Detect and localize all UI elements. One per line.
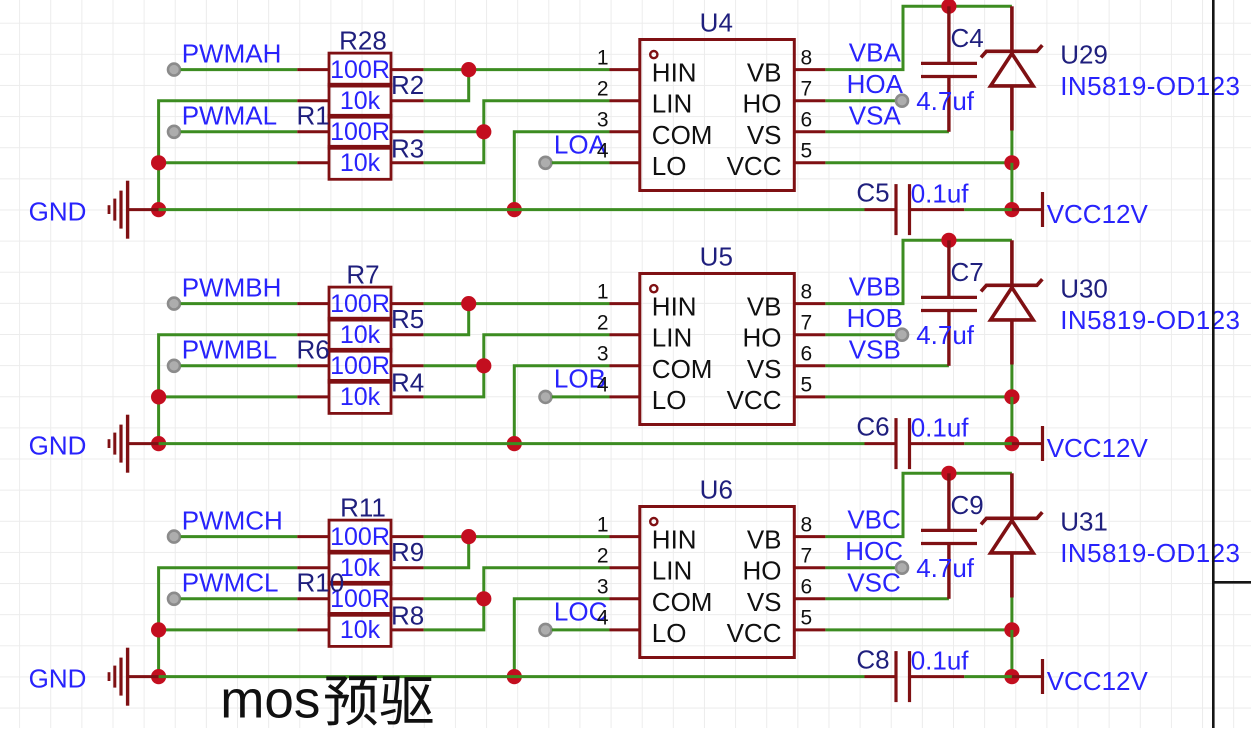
svg-text:5: 5 <box>801 140 813 163</box>
junction VCC net / VCC12V rail <box>1004 669 1019 684</box>
svg-text:LO: LO <box>652 151 687 181</box>
net port LOC <box>540 624 552 636</box>
wire PWMBL to R6 <box>181 364 298 367</box>
svg-text:R2: R2 <box>391 70 424 100</box>
svg-text:VCC: VCC <box>727 618 782 648</box>
diode U29 IN5819-OD123 (Schottky) <box>981 6 1042 130</box>
svg-text:VBA: VBA <box>849 38 902 68</box>
wire VS to C7 <box>825 364 949 367</box>
svg-text:VBC: VBC <box>847 505 900 535</box>
net port HOA <box>896 95 908 107</box>
svg-text:PWMBH: PWMBH <box>182 272 282 302</box>
svg-text:U5: U5 <box>700 242 733 272</box>
resistor R4 10k <box>297 368 424 414</box>
wire U29 anode to VCC net <box>1010 131 1013 163</box>
IC U6 gate driver <box>597 475 826 658</box>
wire R1 to LIN net <box>424 130 484 133</box>
IC U5 gate driver <box>597 242 826 425</box>
junction bootstrap rail / C4 <box>941 0 956 14</box>
ground symbol <box>109 415 159 473</box>
svg-text:R8: R8 <box>391 601 424 631</box>
wire R5 to GND rail <box>159 335 298 444</box>
svg-text:2: 2 <box>597 312 609 335</box>
svg-text:VBB: VBB <box>849 272 901 302</box>
svg-text:HOB: HOB <box>847 303 903 333</box>
svg-text:7: 7 <box>801 545 813 568</box>
svg-text:R3: R3 <box>391 134 424 164</box>
resistor R11 100R <box>297 492 423 553</box>
svg-text:HIN: HIN <box>652 58 697 88</box>
svg-text:R11: R11 <box>340 492 386 522</box>
svg-text:VB: VB <box>747 58 782 88</box>
svg-text:VCC12V: VCC12V <box>1047 666 1149 696</box>
svg-text:GND: GND <box>29 197 87 227</box>
wire HO to HOC <box>825 566 902 569</box>
wire R2 to HIN net <box>424 70 469 101</box>
resistor R1 100R <box>297 101 424 149</box>
wire LOA to pin4 <box>552 161 610 164</box>
resistor R9 10k <box>297 537 424 584</box>
net port HOC <box>896 562 908 574</box>
wire VS to C9 <box>825 597 949 600</box>
svg-text:1: 1 <box>597 513 609 536</box>
svg-text:10k: 10k <box>340 149 381 177</box>
svg-text:100R: 100R <box>330 523 390 551</box>
junction LIN net <box>476 591 491 606</box>
wire R8 to GND rail <box>159 628 298 631</box>
svg-text:VB: VB <box>747 525 782 555</box>
wire to VCC12V flag <box>964 442 1012 445</box>
svg-text:mos: mos <box>220 671 320 729</box>
wire HIN net R7 to pin1 <box>424 302 610 305</box>
svg-text:R28: R28 <box>339 25 387 55</box>
svg-text:C9: C9 <box>951 490 984 520</box>
svg-text:6: 6 <box>801 343 813 366</box>
svg-text:VCC: VCC <box>727 385 782 415</box>
wire GND rail <box>159 675 865 678</box>
svg-text:7: 7 <box>801 312 813 335</box>
wire VCC net down <box>1010 163 1013 210</box>
junction bootstrap rail / C9 <box>941 466 956 481</box>
wire to VCC12V flag <box>964 675 1012 678</box>
title text mos预驱 <box>220 671 432 730</box>
wire PWMAL to R1 <box>181 130 298 133</box>
ground symbol <box>109 181 159 239</box>
net port HOB <box>896 329 908 341</box>
diode U31 IN5819-OD123 (Schottky) <box>981 473 1042 597</box>
svg-text:4.7uf: 4.7uf <box>916 320 975 350</box>
svg-text:R4: R4 <box>391 368 424 398</box>
wire HO to HOB <box>825 333 902 336</box>
svg-text:VS: VS <box>747 120 782 150</box>
net port PWMAH <box>168 64 180 76</box>
capacitor C5 0.1uf <box>856 178 969 236</box>
junction HIN net <box>461 529 476 544</box>
svg-text:C4: C4 <box>951 23 984 53</box>
capacitor C4 4.7uf <box>916 6 984 132</box>
svg-text:R9: R9 <box>391 537 424 567</box>
svg-text:PWMAL: PWMAL <box>182 101 277 131</box>
svg-text:2: 2 <box>597 545 609 568</box>
svg-text:2: 2 <box>597 78 609 101</box>
svg-text:PWMBL: PWMBL <box>182 335 277 365</box>
svg-text:R7: R7 <box>346 259 379 289</box>
svg-text:PWMCH: PWMCH <box>182 505 283 535</box>
svg-text:GND: GND <box>29 431 87 461</box>
svg-text:0.1uf: 0.1uf <box>911 413 970 443</box>
junction GND rail <box>151 669 166 684</box>
svg-text:LO: LO <box>652 618 687 648</box>
wire R9 to HIN net <box>424 537 469 568</box>
power flag VCC12V <box>1012 659 1043 694</box>
svg-text:COM: COM <box>652 120 713 150</box>
svg-text:10k: 10k <box>340 616 381 644</box>
svg-text:3: 3 <box>597 576 609 599</box>
capacitor C7 4.7uf <box>916 240 984 365</box>
svg-text:10k: 10k <box>340 383 381 411</box>
svg-text:U6: U6 <box>700 475 733 505</box>
wire COM to GND rail <box>514 599 609 677</box>
svg-text:R10: R10 <box>297 568 345 598</box>
svg-text:10k: 10k <box>340 321 381 349</box>
junction VCC net / VCC12V rail <box>1004 436 1019 451</box>
svg-text:U31: U31 <box>1060 507 1108 537</box>
wire VCC pin5 <box>825 628 1012 631</box>
svg-text:PWMCL: PWMCL <box>182 568 279 598</box>
wire PWMCL to R10 <box>181 597 298 600</box>
wire R5 to HIN net <box>424 304 469 335</box>
wire LIN net R8 to pin2 <box>424 568 610 630</box>
wire HIN net R28 to pin1 <box>424 68 610 71</box>
capacitor C9 4.7uf <box>916 473 984 599</box>
capacitor C8 0.1uf <box>856 645 969 703</box>
svg-text:C6: C6 <box>856 412 889 442</box>
svg-text:1: 1 <box>597 280 609 303</box>
net port LOA <box>540 157 552 169</box>
svg-text:8: 8 <box>801 46 813 69</box>
wire PWMBH to R7 <box>181 302 298 305</box>
svg-text:U29: U29 <box>1060 40 1108 70</box>
svg-text:C8: C8 <box>856 645 889 675</box>
svg-text:R5: R5 <box>391 304 424 334</box>
resistor R7 100R <box>297 259 423 320</box>
junction bootstrap rail / C7 <box>941 233 956 248</box>
svg-text:C7: C7 <box>951 257 984 287</box>
junction GND rail / R3 <box>151 155 166 170</box>
wire to VCC12V flag <box>964 208 1012 211</box>
svg-text:HOA: HOA <box>847 69 904 99</box>
junction GND rail / R4 <box>151 389 166 404</box>
svg-text:C5: C5 <box>856 178 889 208</box>
net port PWMCH <box>168 531 180 543</box>
IC U4 gate driver <box>597 8 826 191</box>
wire LOB to pin4 <box>552 395 610 398</box>
svg-text:5: 5 <box>801 607 813 630</box>
wire HIN net R11 to pin1 <box>424 535 610 538</box>
resistor R10 100R <box>297 568 424 616</box>
svg-text:4: 4 <box>597 140 609 163</box>
wire R2 to GND rail <box>159 101 298 210</box>
svg-text:VS: VS <box>747 354 782 384</box>
svg-text:HOC: HOC <box>845 536 903 566</box>
net port LOB <box>540 391 552 403</box>
svg-text:LIN: LIN <box>652 556 692 586</box>
svg-text:7: 7 <box>801 78 813 101</box>
junction COM / GND rail <box>507 436 522 451</box>
svg-text:LIN: LIN <box>652 89 692 119</box>
junction LIN net <box>476 358 491 373</box>
wire U31 anode to VCC net <box>1010 598 1013 630</box>
junction GND rail <box>151 202 166 217</box>
svg-text:VSC: VSC <box>847 568 900 598</box>
svg-text:4.7uf: 4.7uf <box>916 553 975 583</box>
svg-text:GND: GND <box>29 664 87 694</box>
wire COM to GND rail <box>514 366 609 444</box>
svg-text:VSB: VSB <box>849 335 901 365</box>
capacitor C6 0.1uf <box>856 412 969 470</box>
svg-text:4.7uf: 4.7uf <box>916 86 975 116</box>
svg-text:4: 4 <box>597 374 609 397</box>
svg-text:10k: 10k <box>340 554 381 582</box>
svg-text:VCC: VCC <box>727 151 782 181</box>
svg-text:VSA: VSA <box>849 101 902 131</box>
svg-text:100R: 100R <box>330 118 390 146</box>
net port PWMBL <box>168 360 180 372</box>
wire VB to bootstrap rail <box>825 473 1012 536</box>
svg-text:R1: R1 <box>297 101 330 131</box>
svg-text:1: 1 <box>597 46 609 69</box>
wire LIN net R4 to pin2 <box>424 335 610 397</box>
junction VCC net / pin5 <box>1004 389 1019 404</box>
wire VB to bootstrap rail <box>825 240 1012 303</box>
wire R3 to GND rail <box>159 161 298 164</box>
svg-text:6: 6 <box>801 576 813 599</box>
wire LOC to pin4 <box>552 628 610 631</box>
svg-text:HIN: HIN <box>652 292 697 322</box>
svg-text:3: 3 <box>597 109 609 132</box>
junction COM / GND rail <box>507 202 522 217</box>
sheet border vertical line <box>1212 0 1215 728</box>
svg-text:3: 3 <box>597 343 609 366</box>
wire GND rail <box>159 208 865 211</box>
wire R6 to LIN net <box>424 364 484 367</box>
junction VCC net / VCC12V rail <box>1004 202 1019 217</box>
svg-text:8: 8 <box>801 513 813 536</box>
svg-text:COM: COM <box>652 587 713 617</box>
svg-text:HO: HO <box>743 556 782 586</box>
junction GND rail / R8 <box>151 622 166 637</box>
svg-text:U30: U30 <box>1060 274 1108 304</box>
wire U30 anode to VCC net <box>1010 365 1013 397</box>
junction LIN net <box>476 124 491 139</box>
svg-text:0.1uf: 0.1uf <box>911 179 970 209</box>
svg-text:4: 4 <box>597 607 609 630</box>
svg-text:100R: 100R <box>330 56 390 84</box>
svg-text:U4: U4 <box>700 8 733 38</box>
svg-text:5: 5 <box>801 374 813 397</box>
svg-text:R6: R6 <box>297 335 330 365</box>
net port PWMBH <box>168 298 180 310</box>
svg-text:LIN: LIN <box>652 323 692 353</box>
wire PWMAH to R28 <box>181 68 298 71</box>
wire VCC net down <box>1010 397 1013 444</box>
svg-text:VS: VS <box>747 587 782 617</box>
wire LIN net R3 to pin2 <box>424 101 610 163</box>
wire VB to bootstrap rail <box>825 6 1012 69</box>
svg-text:0.1uf: 0.1uf <box>911 646 970 676</box>
sheet border horizontal line <box>1213 581 1251 584</box>
wire PWMCH to R11 <box>181 535 298 538</box>
ground symbol <box>109 648 159 706</box>
resistor R8 10k <box>297 601 424 647</box>
svg-text:100R: 100R <box>330 290 390 318</box>
svg-text:VB: VB <box>747 292 782 322</box>
wire VCC net down <box>1010 630 1013 677</box>
svg-text:8: 8 <box>801 280 813 303</box>
junction HIN net <box>461 296 476 311</box>
wire GND rail <box>159 442 865 445</box>
wire VCC pin5 <box>825 395 1012 398</box>
wire R4 to GND rail <box>159 395 298 398</box>
wire VCC pin5 <box>825 161 1012 164</box>
resistor R2 10k <box>297 70 424 117</box>
svg-text:PWMAH: PWMAH <box>182 38 282 68</box>
resistor R28 100R <box>297 25 423 86</box>
resistor R6 100R <box>297 335 424 383</box>
junction GND rail <box>151 436 166 451</box>
svg-text:10k: 10k <box>340 87 381 115</box>
wire HO to HOA <box>825 99 902 102</box>
svg-text:COM: COM <box>652 354 713 384</box>
wire COM to GND rail <box>514 132 609 210</box>
junction VCC net / pin5 <box>1004 622 1019 637</box>
svg-text:LO: LO <box>652 385 687 415</box>
wire VS to C4 <box>825 130 949 133</box>
junction VCC net / pin5 <box>1004 155 1019 170</box>
diode U30 IN5819-OD123 (Schottky) <box>981 240 1042 364</box>
svg-text:HO: HO <box>743 89 782 119</box>
power flag VCC12V <box>1012 192 1043 227</box>
svg-text:HO: HO <box>743 323 782 353</box>
wire R10 to LIN net <box>424 597 484 600</box>
resistor R5 10k <box>297 304 424 351</box>
svg-text:100R: 100R <box>330 352 390 380</box>
svg-text:VCC12V: VCC12V <box>1047 199 1149 229</box>
resistor R3 10k <box>297 134 424 180</box>
svg-text:HIN: HIN <box>652 525 697 555</box>
junction COM / GND rail <box>507 669 522 684</box>
net port PWMAL <box>168 126 180 138</box>
net port PWMCL <box>168 593 180 605</box>
junction HIN net <box>461 62 476 77</box>
power flag VCC12V <box>1012 426 1043 461</box>
wire R9 to GND rail <box>159 568 298 677</box>
svg-text:6: 6 <box>801 109 813 132</box>
svg-text:VCC12V: VCC12V <box>1047 433 1149 463</box>
